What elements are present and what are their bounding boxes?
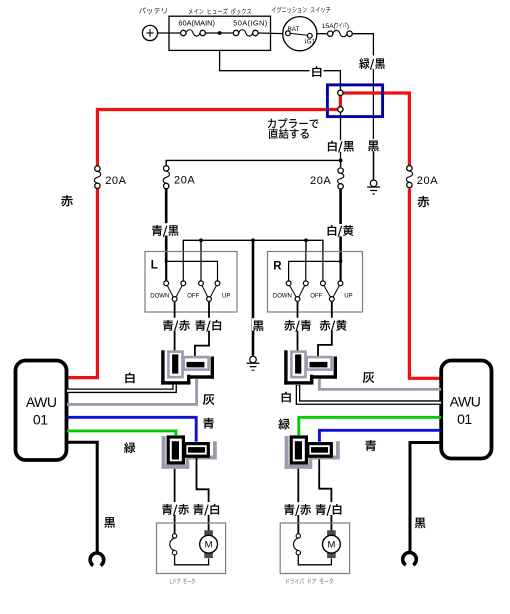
- label 青/黒: [151, 223, 182, 237]
- label 白 left: [125, 372, 134, 383]
- label 緑/黒: [357, 56, 386, 70]
- svg-text:01: 01: [457, 411, 472, 427]
- svg-text:L: L: [151, 260, 158, 272]
- wire 灰 AWU right to connector: [319, 379, 441, 390]
- node coupler upper: [338, 90, 343, 95]
- wire 青 AWU left to connector: [67, 417, 196, 442]
- ground right of coupler: [367, 151, 380, 194]
- fuse 15A(ワイパ): [322, 22, 353, 36]
- power window switch R: [268, 252, 363, 313]
- svg-text:AWU: AWU: [450, 393, 481, 409]
- wire junction to right 20A fuse: [340, 160, 342, 167]
- label 灰 left: [203, 394, 214, 405]
- label 青 left: [203, 418, 214, 429]
- svg-text:DOWN: DOWN: [150, 293, 169, 299]
- label 青/赤 above motor L: [161, 502, 190, 516]
- wire 緑 AWU left to connector: [67, 431, 176, 435]
- label 白/黒: [326, 140, 356, 152]
- wire 白 fuse box to coupler: [220, 50, 341, 91]
- wire 白 AWU right to connector: [298, 385, 441, 403]
- svg-text:50A(IGN): 50A(IGN): [233, 18, 267, 27]
- svg-text:R: R: [273, 261, 282, 273]
- connector upper-left (switch side): [161, 350, 214, 384]
- wire junction to left 20A fuse: [166, 159, 342, 166]
- label 青/白 above motor R: [315, 502, 344, 516]
- label 緑 left: [124, 442, 135, 453]
- label 緑 right: [278, 419, 289, 430]
- svg-text:UP: UP: [344, 293, 352, 299]
- svg-text:M: M: [327, 540, 335, 551]
- label 青 right: [365, 440, 376, 451]
- wire 灰 AWU left to connector: [67, 379, 197, 405]
- wire ground bus: [183, 238, 323, 251]
- label 赤/黄 under switch R: [319, 318, 348, 332]
- label 黒 center: [252, 318, 266, 331]
- ground center: [247, 354, 260, 370]
- wire 黒 coupler to ground: [372, 85, 374, 180]
- ignition switch label イグニッション スイッチ: [272, 7, 331, 13]
- label 青/白 above motor L: [192, 502, 221, 516]
- label 白 right: [282, 392, 291, 403]
- motor box L: [157, 523, 226, 574]
- fuse 20A left: [94, 166, 126, 189]
- battery label バッテリ: [139, 7, 166, 13]
- svg-text:01: 01: [33, 411, 48, 427]
- label 黒 right bottom: [415, 518, 426, 529]
- eyelet right: [403, 552, 417, 565]
- svg-text:M: M: [205, 540, 213, 551]
- battery B+: [142, 25, 157, 40]
- main fuse box: [169, 16, 271, 50]
- wire 黒 bus to center ground: [252, 240, 255, 355]
- motor box R: [280, 523, 349, 574]
- wire 青/赤 connector to motor R: [297, 469, 299, 534]
- wire fuse box to ignition switch: [258, 32, 283, 35]
- label Lドア モータ: [170, 578, 194, 584]
- fuse 20A right: [406, 166, 438, 188]
- AWU01 unit left: [16, 361, 67, 461]
- label 黒 left bottom: [104, 517, 115, 528]
- svg-text:UP: UP: [222, 293, 230, 299]
- wire switch R pole1 to connector: [297, 302, 299, 351]
- coupler direct-connect box: [327, 85, 382, 117]
- svg-text:20A: 20A: [417, 175, 438, 187]
- label ドライバ ドア モータ: [286, 578, 333, 584]
- label 青/赤 above motor R: [283, 502, 312, 516]
- wire red left to AWU01 left: [67, 110, 341, 378]
- wire 青 AWU right to connector: [319, 430, 441, 442]
- wire red right to AWU01 right: [340, 93, 441, 378]
- svg-text:AWU: AWU: [26, 394, 57, 410]
- wire 緑 AWU right to connector: [299, 417, 441, 435]
- wire switch R pole2 to connector: [318, 302, 332, 357]
- fuse 60A(MAIN): [178, 18, 215, 36]
- svg-text:OFF: OFF: [310, 293, 322, 299]
- svg-text:20A: 20A: [174, 175, 195, 187]
- wire 緑/黒 fuse to coupler box: [352, 34, 373, 85]
- wire 白 AWU left to connector: [67, 385, 175, 391]
- label 赤/青 under switch R: [283, 318, 312, 332]
- wire 黒 AWU left to body ground: [67, 442, 97, 553]
- fuse 20A mid-left: [163, 166, 195, 189]
- fuse 50A(IGN): [233, 18, 267, 36]
- connector upper-right (switch side): [284, 350, 337, 384]
- ignition switch: [283, 17, 317, 51]
- label 白/黄: [326, 224, 357, 237]
- wire 白/黄 to switch R: [339, 189, 342, 261]
- fuse 20A mid-right: [310, 168, 344, 189]
- svg-text:20A: 20A: [310, 175, 331, 187]
- label 黒 on ground wire: [367, 139, 381, 151]
- wire IG1 to 15A fuse: [317, 33, 328, 35]
- wire 青/白 connector to motor L: [197, 458, 209, 531]
- label 赤 right: [418, 196, 430, 207]
- wire 白/黒 coupler to junction: [340, 111, 342, 160]
- wire switch L pole2 to connector: [195, 302, 209, 357]
- wire switch L pole1 to connector: [174, 302, 176, 351]
- label 白 top: [310, 65, 324, 77]
- eyelet left: [90, 553, 104, 566]
- label 青/白 under switch L: [194, 318, 223, 332]
- svg-text:20A: 20A: [105, 175, 126, 187]
- wire 青/黒 to switch L: [165, 189, 168, 262]
- label 赤 left: [61, 195, 73, 206]
- wire 青/赤 connector to motor L: [174, 469, 176, 534]
- connector lower-right (motor side): [285, 435, 340, 468]
- label カプラーで直結する: [268, 118, 319, 139]
- svg-text:15A(: 15A(: [322, 23, 337, 30]
- AWU01 unit right: [441, 361, 491, 459]
- svg-text:60A(MAIN): 60A(MAIN): [178, 18, 215, 27]
- power window switch L: [145, 252, 237, 313]
- wire 青/白 connector to motor R: [319, 459, 331, 530]
- main fuse box label メイン ヒューズ ボックス: [189, 8, 252, 14]
- svg-text:IG1: IG1: [305, 39, 316, 46]
- wire battery to fuse box: [158, 32, 181, 34]
- connector lower-left (motor side): [162, 435, 217, 468]
- wire red jumper in coupler: [339, 93, 342, 110]
- svg-text:DOWN: DOWN: [273, 293, 292, 299]
- node coupler lower: [338, 107, 343, 112]
- node main fuse junction: [205, 31, 233, 35]
- label 灰 right: [363, 372, 374, 383]
- wire 黒 AWU right to body ground: [410, 443, 441, 554]
- label 青/赤 under switch L: [162, 318, 191, 332]
- svg-text:OFF: OFF: [187, 293, 199, 299]
- svg-text:): ): [347, 23, 349, 30]
